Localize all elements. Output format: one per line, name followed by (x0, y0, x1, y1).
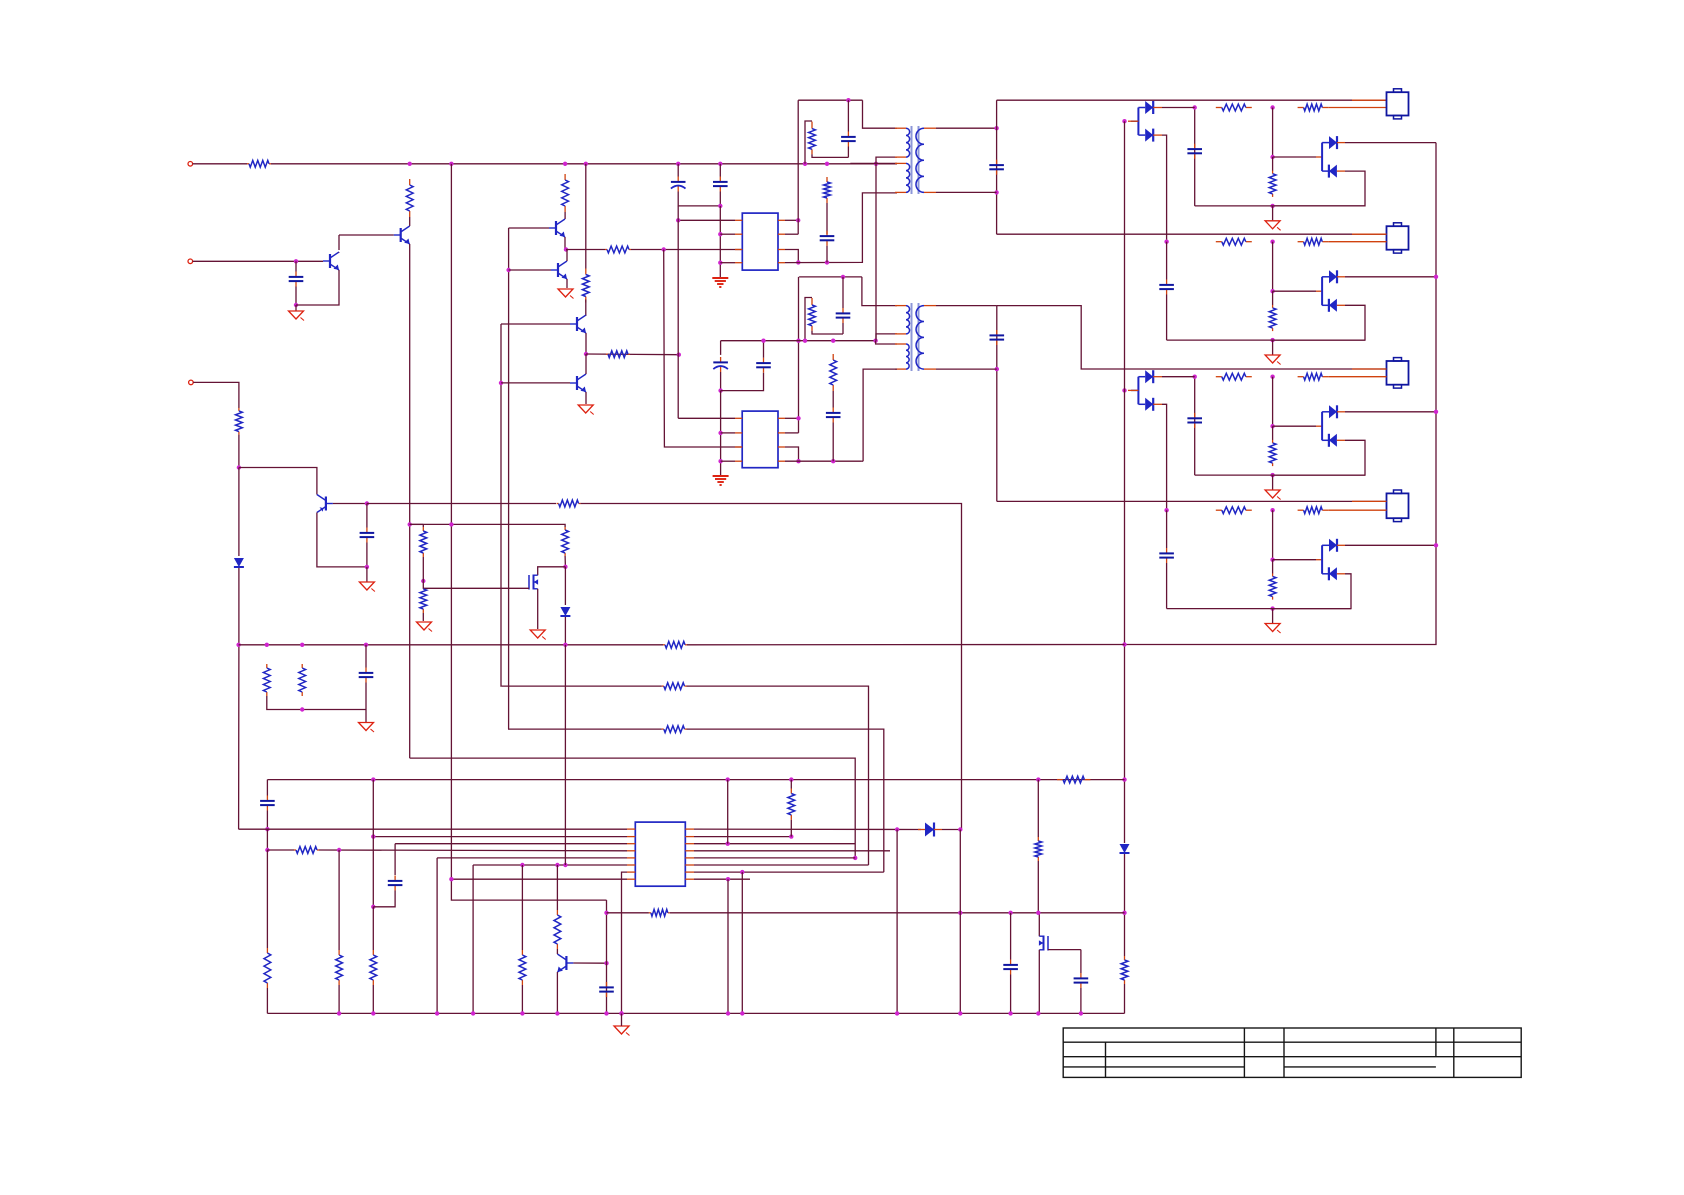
junction bus/x742 (740, 1011, 744, 1015)
IC1 pin3 stub (735, 249, 742, 251)
block1 Dd anode stub (1337, 170, 1345, 172)
resistor R23 (338, 950, 340, 955)
RRC bottom a (267, 696, 366, 710)
junction snubber1 cap (846, 98, 850, 102)
IC3 pin7 left stub (627, 871, 635, 873)
block3 Dd loop (1273, 440, 1365, 475)
resistor R26 (649, 912, 651, 914)
IC3 pin1 left stub (627, 828, 635, 830)
line y645 right part (687, 644, 1125, 646)
junction M1 drain node (563, 565, 567, 569)
wire Q6 emitter (585, 333, 587, 354)
block4 tap to R (1272, 560, 1274, 574)
wire Q3 collector down (317, 513, 367, 567)
junction T2 sec bottom (995, 367, 999, 371)
block3 tap to diode pair (1273, 425, 1316, 427)
wire R1 to bus1 (271, 163, 410, 165)
R27 top (790, 780, 792, 789)
wire C2 top (719, 164, 721, 177)
wire C3 top (295, 261, 297, 271)
snubber1 R leg (805, 121, 812, 164)
wire Q6 base (501, 323, 570, 325)
resistor Rblock4b (1298, 509, 1304, 511)
transistor Q3 (PNP) (325, 497, 327, 511)
wire Q7 base (501, 382, 570, 384)
ground block1 (1265, 221, 1280, 229)
IC3 pin8 line (451, 878, 627, 880)
D3 cathode stub (934, 829, 942, 831)
diode Dblock3L2 (1145, 398, 1153, 411)
wire to GND2 (366, 567, 368, 582)
junction x720/IC1 pin4 (718, 261, 722, 265)
ground GND3 (558, 289, 573, 297)
op-amp U1 driver IC (742, 213, 778, 270)
IC2 pin8 stub (778, 460, 785, 462)
junction bus1/C2 (718, 162, 722, 166)
junction anode rail/y645 (1122, 642, 1126, 646)
block3 connector pin2 red (1328, 376, 1386, 378)
bottom ground bus (267, 1012, 1124, 1014)
x267 to R20 (266, 850, 268, 948)
line y686 right (687, 686, 869, 865)
block3 connector pin1 red (1352, 368, 1387, 370)
block2 cap rail (1166, 242, 1168, 280)
wire C4 bottom (366, 543, 368, 567)
block2 tap to R (1272, 291, 1274, 305)
junction snubber2 leg/bus2 (796, 339, 800, 343)
C11 bottom (721, 373, 764, 391)
R24 to bus (521, 985, 523, 1013)
R21 to bus (372, 985, 374, 1013)
wire C5 bottom (826, 246, 828, 263)
R31 to R32 (422, 557, 424, 589)
IC1 pin4 stub (735, 262, 742, 264)
junction anode rail block3 (1122, 388, 1126, 392)
block1 DL1 cathode stub (1153, 107, 1162, 109)
wire Q7 emitter to GND4 (585, 392, 587, 404)
T1 pri upper top pin (895, 127, 906, 129)
transistor Q6 (576, 317, 578, 331)
capacitor C11 (763, 358, 765, 363)
capacitor Cblock3 (1194, 413, 1196, 418)
R20 to bus (266, 988, 268, 1013)
junction pin6/x557 (555, 863, 559, 867)
block4 connector pin2 red (1328, 509, 1386, 511)
diode Dblock4u (1329, 539, 1337, 552)
junction x606/Lsub (604, 911, 608, 915)
resistor R5 (564, 174, 566, 180)
transistor Q5 (557, 263, 559, 277)
wire IC2 pin6 right (785, 432, 799, 434)
junction bus1/T1 (874, 162, 878, 166)
junction pin10/x742 (740, 870, 744, 874)
ground block3 (1265, 490, 1280, 498)
block1 connector pin2 red (1328, 107, 1386, 109)
Q8 base right (573, 962, 606, 964)
wire y354 link (586, 353, 679, 356)
line L2 (267, 779, 1124, 781)
line y645 (239, 644, 663, 646)
wire IC1 pin2 left (720, 233, 735, 235)
capacitor Cblock2 (1166, 280, 1168, 285)
resistor R12 (832, 354, 834, 360)
wire x798 snubber leg (797, 100, 799, 234)
wire R7 to Q6 collector (585, 300, 587, 316)
wire bus1 to R7 (585, 164, 587, 269)
block3 bus to connector (997, 306, 1387, 369)
junction Q8 base/x606 (604, 961, 608, 965)
junction pin7/pin8 net (796, 459, 800, 463)
T2 pri lower bot pin (895, 368, 906, 370)
block4 connector pin1 red (1352, 500, 1387, 502)
line y729 (508, 728, 662, 730)
junction y524/x451 (449, 522, 453, 526)
wire x501 vertical (500, 324, 502, 686)
resistor Rblock2b (1298, 241, 1304, 243)
capacitor C1 (polarized) (677, 177, 679, 182)
wire Q2 emitter down (296, 270, 339, 305)
IC3 pin12 right stub (685, 857, 694, 859)
block1 anode stub (1128, 120, 1138, 122)
terminal J3 pin (189, 380, 194, 385)
block4 Du cathode stub (1337, 544, 1345, 546)
junction L2/x1038 (1036, 777, 1040, 781)
R23 to bus (338, 985, 340, 1013)
IC3 pin10 right stub (685, 871, 694, 873)
junction bus1/x451 (449, 162, 453, 166)
junction L2/x727 (726, 777, 730, 781)
op-amp U3 PWM controller (635, 822, 685, 886)
block4 tap vertical (1272, 510, 1274, 560)
diode Dblock1L1 (1145, 101, 1153, 114)
transformer T2 primary upper winding (906, 306, 910, 334)
junction bus1/snubR (803, 162, 807, 166)
junction C4/GND2 (365, 565, 369, 569)
x267 lower (266, 829, 268, 850)
diode D3 (925, 823, 934, 837)
block1 bus to connector (997, 99, 1387, 101)
IC1 pin5 stub (778, 219, 785, 221)
junction block3 tap (1270, 424, 1274, 428)
junction block1 bottom (1270, 204, 1274, 208)
capacitor C7 output1 (996, 160, 998, 165)
capacitor C17 (1080, 973, 1082, 978)
wire R5 to Q4 (564, 212, 566, 219)
ground GND7 (530, 630, 545, 638)
terminal J1 pin (188, 162, 193, 167)
block3 DL2 cathode stub (1153, 403, 1162, 405)
block4 Dd anode stub (1337, 573, 1345, 575)
wire diode D1 chain (238, 468, 240, 557)
junction pin2/x373 (371, 834, 375, 838)
snubber2 cap top (842, 277, 844, 308)
pin3 cap chain (394, 844, 396, 875)
wire Q5 base (509, 269, 551, 271)
block3 Du cathode to rail (1345, 411, 1436, 413)
junction R12 chain bottom (831, 459, 835, 463)
junction block4 line left (1164, 508, 1168, 512)
x606 vertical (606, 900, 608, 1013)
block3 Du cathode stub (1337, 411, 1345, 413)
junction y354/x678 (677, 353, 681, 357)
resistor R30 (564, 527, 566, 530)
IC1 pin8 stub (778, 262, 785, 264)
earth ground E2 (713, 475, 729, 477)
junction bus/x606 (604, 1011, 608, 1015)
R30 to node (564, 556, 566, 567)
junction y645/RRC a (265, 643, 269, 647)
IC3 pin9 line (694, 878, 750, 880)
junction bus/x1038 (1036, 1011, 1040, 1015)
T1 sec top pin (924, 127, 936, 129)
snubber2 R leg (805, 298, 812, 341)
resistor R9 snubber (811, 122, 813, 129)
Q8 emitter to bus (556, 972, 558, 1013)
IC3 pin7 drop (622, 872, 628, 1013)
block1 Du cathode to rail (1345, 142, 1436, 144)
block4 bus to connector (997, 500, 1387, 502)
transformer T1 primary lower winding (906, 163, 910, 192)
transformer T2 secondary winding (916, 306, 924, 370)
ground GND8 (417, 622, 432, 630)
resistor Rblock4c (1272, 573, 1274, 576)
junction anode rail block1 (1122, 119, 1126, 123)
x557 vertical (556, 865, 558, 910)
junction L2/x373 (371, 777, 375, 781)
IC3 pin1 line (T1) (239, 828, 627, 830)
junction bus/x728 (726, 1011, 730, 1015)
junction x798/IC2 pin5 (796, 416, 800, 420)
diode Dblock1u (1329, 136, 1337, 149)
T2 lower primary top lead (876, 341, 897, 344)
block1 cap rail (1194, 108, 1196, 206)
transistor Q1 (400, 228, 402, 242)
wire Q3 emitter right (333, 503, 367, 505)
block2 tap vertical (1272, 242, 1274, 292)
bus2 rail (721, 340, 876, 342)
IC3 pin13 right stub (685, 850, 694, 852)
block1 tap to diode pair (1273, 156, 1316, 158)
block3 anode stub (1128, 389, 1138, 391)
junction block3 capline (1193, 375, 1197, 379)
diode D4 bottom (564, 617, 566, 645)
ground block2 (1265, 355, 1280, 363)
anode rail vertical low (1124, 984, 1126, 1013)
capacitor C18 (1010, 960, 1012, 965)
x1010 bottom (1010, 975, 1012, 1014)
junction bus/x960 (958, 1011, 962, 1015)
y524 to R31 (410, 523, 424, 525)
IC3 pin5 left stub (627, 857, 635, 859)
resistor R13 rail (1124, 956, 1126, 960)
junction bus2/R12 (831, 339, 835, 343)
C10 bottom (720, 372, 722, 391)
resistor R22 (294, 849, 296, 851)
capacitor C12 (832, 408, 834, 413)
snubber1 R bottom link (812, 154, 848, 157)
resistor Rblock4a (1216, 509, 1222, 511)
wire long line y503 (367, 503, 556, 505)
junction C2/earth rail (718, 204, 722, 208)
T2 pri upper top pin (895, 305, 906, 307)
connector CN4 (1387, 493, 1409, 518)
transistor M2 (1043, 936, 1045, 951)
block2 Dd anode stub (1337, 304, 1345, 306)
junction T1 sec bottom (994, 190, 998, 194)
IC3 pin12 line (694, 857, 855, 859)
transformer T2 primary lower winding (906, 344, 909, 369)
IC2 pin7 stub (778, 446, 785, 448)
block1 dual diode link (1316, 156, 1322, 158)
earth ground E1 (712, 277, 728, 279)
block3 DL1 cathode stub (1153, 376, 1162, 378)
capacitor C15 (394, 876, 396, 881)
junction block4 tap (1270, 558, 1274, 562)
wire x508 vertical (507, 228, 509, 729)
wire Q7 collector (585, 354, 587, 374)
wire x451 long vertical (451, 164, 606, 900)
junction bus1/R7 (584, 162, 588, 166)
wire drive to T2 (862, 460, 863, 462)
block2 Du cathode to rail (1345, 276, 1436, 278)
junction bus2/C11 (761, 339, 765, 343)
junction R11 chain bottom (825, 260, 829, 264)
block4 cap rail (1166, 510, 1168, 548)
junction x267/T1line (265, 827, 269, 831)
IC3 pin3 line (395, 843, 627, 845)
x1010 top (1010, 913, 1012, 960)
T1 sec cap rail (996, 100, 998, 234)
line y524 (410, 524, 565, 527)
bus1 top rail (410, 163, 897, 165)
IC3 pin2 line (373, 836, 627, 838)
junction Q6 emitter/Q7 collector (584, 352, 588, 356)
block3 tap to R (1272, 426, 1274, 440)
x565 lower vertical (564, 645, 566, 865)
junction rail/block4 (1434, 543, 1438, 547)
block2 bus to connector (997, 233, 1387, 235)
C11 top (763, 341, 765, 358)
resistor R4 (557, 503, 559, 505)
diode Dblock1L2 (1145, 129, 1153, 142)
block1 bottom wire (1195, 205, 1365, 207)
wire Q2 collector to Q1 base (338, 235, 340, 250)
junction bus/x557 (555, 1011, 559, 1015)
C13 top (365, 645, 367, 668)
resistor R15 (266, 664, 268, 668)
IC3 pin8 left stub (627, 878, 635, 880)
junction rail/block2 (1434, 275, 1438, 279)
junction bus1/R11 (825, 162, 829, 166)
resistor R6 (605, 249, 607, 251)
junction pin9/x728 (726, 877, 730, 881)
snubber1 cap bottom (847, 147, 849, 158)
junction block1 capline (1193, 105, 1197, 109)
resistor R3 (238, 408, 240, 411)
junction pin6/x522 (520, 863, 524, 867)
diode Dblock3u (1329, 405, 1337, 418)
junction block3 line/Rtap (1270, 375, 1274, 379)
resistor R11 (826, 177, 828, 182)
junction block2 bottom (1270, 338, 1274, 342)
wire D1 to y645 (238, 568, 240, 829)
x727 vertical (727, 780, 729, 844)
junction anode rail/L2 (1122, 777, 1126, 781)
transformer T1 secondary winding (916, 128, 924, 192)
transformer T1 core (911, 126, 913, 194)
junction rail/block3 (1434, 410, 1438, 414)
IC2 pin2 stub (735, 432, 742, 434)
junction y645/x565 (563, 643, 567, 647)
block2 dual diode link (1316, 290, 1322, 292)
line y729 right (687, 729, 884, 872)
block4 cap rail low (1166, 563, 1168, 609)
resistor R2 (409, 179, 411, 185)
snubber2 right leg (862, 277, 897, 306)
block1 connector pin1 red (1352, 99, 1387, 101)
junction C3/Q2 emitter (294, 303, 298, 307)
junction RRC bottom (300, 707, 304, 711)
junction pin4/x339 (337, 848, 341, 852)
block1 Dd loop (1273, 171, 1365, 206)
T2 sec top lead (936, 305, 997, 307)
block3 DL2 to next block (1162, 404, 1167, 511)
wire IC1 pin7 right (785, 250, 798, 263)
diode Dblock1d (1329, 165, 1337, 178)
wire IC2 pin4 left (721, 460, 735, 462)
block4 Dd loop (1273, 574, 1351, 609)
IC3 pin5 line (437, 857, 627, 859)
IC3 pin13 line (694, 850, 890, 852)
connector CN1 (1387, 92, 1409, 115)
wire IC1 pin6 right (785, 233, 798, 235)
T1 sec bottom lead (936, 191, 997, 193)
capacitor C2 (719, 177, 721, 182)
wire IC2 pin7 right (785, 447, 799, 461)
T1 sec top lead (936, 127, 997, 129)
R31 top lead (422, 524, 424, 527)
junction bus/x1010 (1008, 1011, 1012, 1015)
wire C2 bottom (719, 192, 721, 206)
junction pin6/x565 (563, 863, 567, 867)
junction block3 bottom (1270, 473, 1274, 477)
wire node to Q3 (239, 468, 317, 495)
wire Q6 collector stub (585, 314, 587, 317)
T1 sec bot pin (924, 191, 936, 193)
junction bus1/R5 (563, 162, 567, 166)
IC3 pin6 left stub (627, 864, 635, 866)
junction pin16/x960 (958, 827, 962, 831)
wire x678 vertical (677, 206, 679, 418)
IC1 pin7 stub (778, 249, 785, 251)
capacitor C4 (366, 528, 368, 533)
transistor Q4 (555, 221, 557, 235)
block4 dual diode link (1316, 559, 1322, 561)
IC3 pin11 line (694, 864, 869, 866)
IC3 pin15 line (694, 836, 791, 838)
M2 gate wire (1048, 949, 1081, 951)
junction block2 tap (1270, 289, 1274, 293)
junction block2 line left (1164, 240, 1168, 244)
block3 left dual diode link (1131, 389, 1138, 391)
pin16 line after D3 (942, 829, 960, 831)
junction x1038/Lsub (1036, 911, 1040, 915)
junction bus/x339 (337, 1011, 341, 1015)
junction pin15/R27 (789, 834, 793, 838)
diode Dblock4d (1329, 567, 1337, 580)
junction pin14/x727 (726, 842, 730, 846)
wire C1 top (677, 164, 679, 177)
